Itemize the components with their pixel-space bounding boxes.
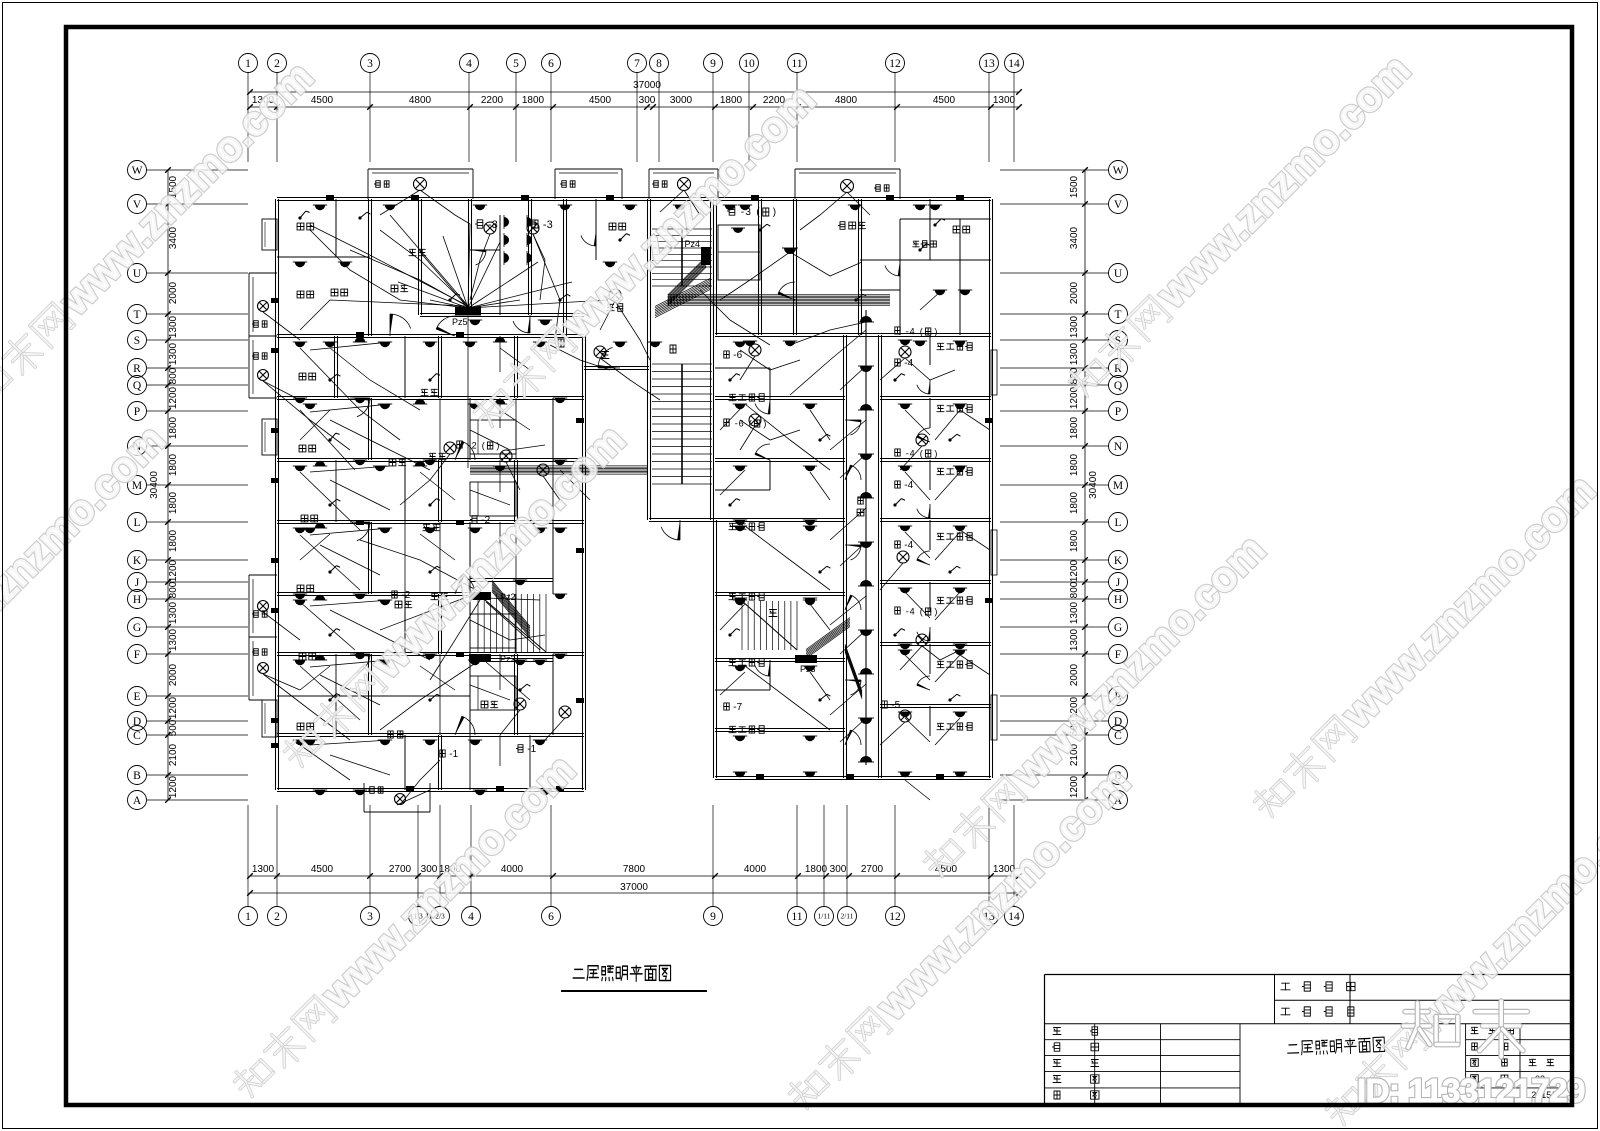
svg-text:B: B xyxy=(133,770,141,782)
svg-text:): ) xyxy=(934,606,937,616)
svg-text:1800: 1800 xyxy=(522,95,545,106)
svg-text:1500: 1500 xyxy=(1069,175,1080,198)
svg-text:300: 300 xyxy=(639,95,656,106)
svg-text:-1: -1 xyxy=(527,744,536,755)
svg-text:L: L xyxy=(133,517,140,529)
svg-text:6: 6 xyxy=(548,911,554,923)
left wing bath pods xyxy=(470,420,516,454)
extra top-band walls xyxy=(277,256,370,258)
svg-text:(: ( xyxy=(482,440,485,450)
left balcony lamps xyxy=(258,301,269,312)
middle stairs xyxy=(652,228,712,230)
svg-text:1200: 1200 xyxy=(168,559,179,582)
svg-text:-4: -4 xyxy=(904,480,913,491)
panel Pz5 xyxy=(455,307,481,316)
svg-text:J: J xyxy=(1116,577,1121,589)
svg-text:Q: Q xyxy=(1114,380,1123,392)
svg-text:): ) xyxy=(934,326,937,336)
left wing stair core xyxy=(470,578,553,580)
svg-text:2/11: 2/11 xyxy=(840,912,853,921)
svg-text:500: 500 xyxy=(168,719,179,736)
panel Pz2 xyxy=(469,592,491,600)
axis grid left xyxy=(128,161,147,180)
svg-text:11: 11 xyxy=(791,58,802,70)
svg-text:1300: 1300 xyxy=(252,864,275,875)
svg-text:-7: -7 xyxy=(733,702,742,713)
svg-text:4000: 4000 xyxy=(744,864,767,875)
switches xyxy=(300,211,306,218)
axis grid bottom xyxy=(239,907,258,926)
svg-text:E: E xyxy=(133,691,140,703)
svg-text:-6: -6 xyxy=(733,350,742,361)
svg-text:): ) xyxy=(773,207,776,218)
panel Pz2 xyxy=(469,654,491,662)
room labels top band xyxy=(297,223,304,230)
svg-text:12: 12 xyxy=(889,911,901,923)
right wing room labels xyxy=(729,393,735,395)
svg-text:1800: 1800 xyxy=(805,864,828,875)
svg-text:4500: 4500 xyxy=(933,95,956,106)
svg-text:300: 300 xyxy=(830,864,847,875)
svg-text:K: K xyxy=(133,555,142,567)
svg-text:G: G xyxy=(1114,622,1122,634)
svg-text:1800: 1800 xyxy=(1069,453,1080,476)
balcony lamp xyxy=(841,180,854,193)
svg-text:4000: 4000 xyxy=(501,864,524,875)
more sills xyxy=(271,348,279,353)
extra wires left wing xyxy=(330,420,430,470)
svg-text:2000: 2000 xyxy=(1069,663,1080,686)
svg-text:30400: 30400 xyxy=(149,471,160,499)
panel Pz3 xyxy=(795,655,817,663)
svg-text:9: 9 xyxy=(710,911,716,923)
svg-text:F: F xyxy=(134,649,140,661)
stair labels xyxy=(558,339,564,347)
svg-text:1300: 1300 xyxy=(1069,628,1080,651)
svg-text:1300: 1300 xyxy=(168,601,179,624)
bundle Pz4 xyxy=(668,257,890,295)
svg-text:30400: 30400 xyxy=(1088,471,1099,499)
svg-text:13: 13 xyxy=(983,58,995,70)
svg-text:9: 9 xyxy=(710,58,716,70)
svg-text:H: H xyxy=(1114,594,1122,606)
watermark big 知末 xyxy=(1405,1009,1428,1015)
svg-text:): ) xyxy=(934,448,937,458)
door arcs xyxy=(390,314,411,328)
svg-text:2000: 2000 xyxy=(168,663,179,686)
building exterior walls xyxy=(275,199,277,790)
Pz5 wire fan xyxy=(420,252,468,308)
svg-text:-2: -2 xyxy=(481,515,490,526)
svg-text:-2: -2 xyxy=(401,590,410,601)
sconce fixtures xyxy=(315,205,325,210)
wall blocks xyxy=(326,195,334,200)
svg-text:-1: -1 xyxy=(449,749,458,760)
kitchen pod top right xyxy=(718,225,760,280)
svg-text:1800: 1800 xyxy=(168,529,179,552)
svg-text:M: M xyxy=(1113,480,1123,492)
right wing right column partitions xyxy=(880,396,991,398)
svg-text:1800: 1800 xyxy=(168,453,179,476)
left wing room labels xyxy=(297,291,304,298)
svg-text:2100: 2100 xyxy=(168,743,179,766)
middle top partitions xyxy=(647,199,649,368)
svg-text:2700: 2700 xyxy=(861,864,884,875)
svg-text:10: 10 xyxy=(743,58,755,70)
svg-text:1200: 1200 xyxy=(168,386,179,409)
svg-text:V: V xyxy=(1114,199,1123,211)
svg-text:-5: -5 xyxy=(891,700,900,711)
svg-text:-: - xyxy=(906,326,909,336)
lounge fixtures xyxy=(784,248,796,254)
svg-text:1: 1 xyxy=(245,911,251,923)
left side balconies xyxy=(248,273,250,336)
svg-text:-3: -3 xyxy=(543,219,553,231)
svg-text:T: T xyxy=(1114,309,1121,321)
svg-text:W: W xyxy=(1113,165,1124,177)
svg-text:K: K xyxy=(1114,555,1123,567)
top band partitions (left) xyxy=(368,199,370,336)
more left wing detail xyxy=(335,654,337,735)
right edge bays xyxy=(991,350,997,395)
svg-text:C: C xyxy=(133,730,141,742)
svg-text:P: P xyxy=(1115,406,1121,418)
right wing corridor xyxy=(843,335,845,778)
right band partitions xyxy=(758,199,760,335)
svg-text:14: 14 xyxy=(1008,58,1020,70)
svg-text:7: 7 xyxy=(634,58,640,70)
svg-text:1200: 1200 xyxy=(1069,559,1080,582)
svg-text:6: 6 xyxy=(548,58,554,70)
svg-text:C: C xyxy=(1114,730,1122,742)
svg-text:12: 12 xyxy=(889,58,901,70)
svg-text:1800: 1800 xyxy=(168,491,179,514)
balcony lamp xyxy=(414,178,427,191)
balcony lamp xyxy=(678,178,691,191)
svg-text:(: ( xyxy=(920,326,923,336)
svg-text:-: - xyxy=(906,606,909,616)
svg-text:1300: 1300 xyxy=(1069,315,1080,338)
bay windows xyxy=(262,219,277,250)
svg-text:2000: 2000 xyxy=(168,281,179,304)
svg-text:4800: 4800 xyxy=(409,95,432,106)
svg-text:11: 11 xyxy=(791,911,802,923)
drawing title xyxy=(573,965,671,981)
svg-text:(: ( xyxy=(920,448,923,458)
svg-text:A: A xyxy=(133,795,142,807)
bottom balcony xyxy=(364,811,430,813)
svg-text:37000: 37000 xyxy=(633,80,661,91)
svg-text:4: 4 xyxy=(466,58,472,70)
svg-text:U: U xyxy=(1114,268,1123,280)
svg-text:1300: 1300 xyxy=(1069,342,1080,365)
title block text xyxy=(1282,982,1290,984)
svg-text:1300: 1300 xyxy=(168,342,179,365)
axis grid right xyxy=(1109,161,1128,180)
svg-text:1200: 1200 xyxy=(168,696,179,719)
axis grid top xyxy=(239,54,258,73)
svg-text:S: S xyxy=(134,335,140,347)
svg-text:4800: 4800 xyxy=(835,95,858,106)
svg-text:800: 800 xyxy=(1069,581,1080,598)
svg-text:-: - xyxy=(906,448,909,458)
wiring xyxy=(420,190,470,224)
svg-text:1300: 1300 xyxy=(993,95,1016,106)
svg-text:800: 800 xyxy=(168,367,179,384)
svg-text:37000: 37000 xyxy=(620,882,648,893)
svg-text:1: 1 xyxy=(245,58,251,70)
bundle from Pz2 xyxy=(492,580,530,626)
panel Pz4 xyxy=(701,247,711,265)
balcony labels xyxy=(376,181,380,188)
svg-text:4500: 4500 xyxy=(311,95,334,106)
svg-text:3000: 3000 xyxy=(670,95,693,106)
svg-text:-4: -4 xyxy=(904,358,913,369)
svg-text:3: 3 xyxy=(367,58,373,70)
svg-text:4: 4 xyxy=(910,326,915,336)
svg-text:1800: 1800 xyxy=(720,95,743,106)
svg-text:1300: 1300 xyxy=(1069,601,1080,624)
right wing left column partitions xyxy=(715,396,845,398)
svg-text:2: 2 xyxy=(274,911,280,923)
svg-text:4: 4 xyxy=(910,606,915,616)
svg-text:1800: 1800 xyxy=(1069,491,1080,514)
svg-text:4500: 4500 xyxy=(589,95,612,106)
svg-text:3: 3 xyxy=(367,911,373,923)
svg-text:L: L xyxy=(1114,517,1121,529)
svg-text:-: - xyxy=(735,418,738,428)
svg-text:1300: 1300 xyxy=(168,315,179,338)
svg-text:T: T xyxy=(133,309,140,321)
svg-text:1200: 1200 xyxy=(168,775,179,798)
svg-text:Pz2: Pz2 xyxy=(500,654,516,664)
svg-text:H: H xyxy=(133,594,141,606)
svg-text:N: N xyxy=(1114,441,1123,453)
svg-text:W: W xyxy=(132,165,143,177)
svg-text:1800: 1800 xyxy=(1069,416,1080,439)
watermark tiles xyxy=(0,52,322,412)
svg-text:6: 6 xyxy=(739,418,744,428)
svg-text:4: 4 xyxy=(468,911,474,923)
svg-text:): ) xyxy=(496,440,499,450)
svg-text:2: 2 xyxy=(472,440,477,450)
svg-text:4500: 4500 xyxy=(311,864,334,875)
svg-text:2200: 2200 xyxy=(481,95,504,106)
ceiling lamps xyxy=(527,222,539,234)
svg-text:1800: 1800 xyxy=(1069,529,1080,552)
svg-text:2000: 2000 xyxy=(1069,281,1080,304)
svg-text:1/11: 1/11 xyxy=(817,912,830,921)
sconce pairs bathrooms xyxy=(504,217,509,227)
svg-text:3400: 3400 xyxy=(1069,226,1080,249)
svg-text:R: R xyxy=(133,363,141,375)
svg-text:800: 800 xyxy=(168,581,179,598)
svg-text:J: J xyxy=(135,577,140,589)
svg-text:2700: 2700 xyxy=(389,864,412,875)
svg-text:5: 5 xyxy=(513,58,519,70)
top balconies xyxy=(368,168,473,170)
svg-text:1300: 1300 xyxy=(168,628,179,651)
svg-text:1800: 1800 xyxy=(168,416,179,439)
title block xyxy=(1045,974,1573,976)
svg-text:Q: Q xyxy=(133,380,142,392)
svg-text:8: 8 xyxy=(656,58,662,70)
right wing stair xyxy=(741,601,743,650)
svg-text:G: G xyxy=(133,622,141,634)
svg-text:Pz5: Pz5 xyxy=(452,317,468,327)
svg-text:-4: -4 xyxy=(904,540,913,551)
svg-text:7800: 7800 xyxy=(623,864,646,875)
left wing partitions xyxy=(277,396,584,398)
